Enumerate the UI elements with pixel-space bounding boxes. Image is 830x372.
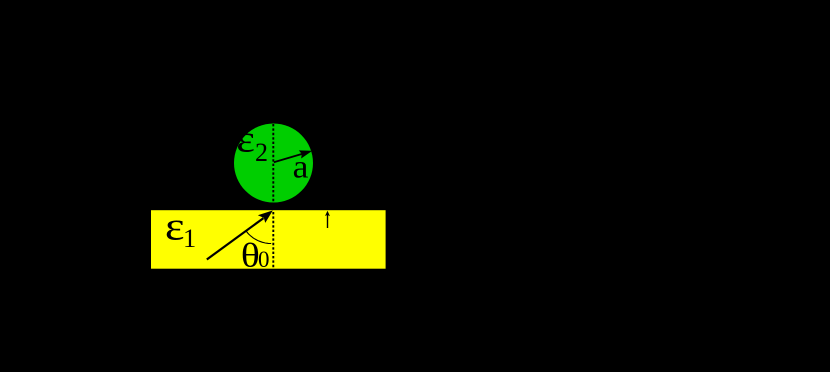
svg-text:1: 1 [183, 223, 196, 253]
svg-text:ε: ε [165, 205, 185, 249]
svg-text:θ: θ [241, 236, 260, 273]
svg-text:0: 0 [258, 247, 270, 272]
svg-text:ε: ε [236, 118, 255, 160]
svg-text:2: 2 [255, 138, 268, 167]
svg-text:a: a [293, 149, 309, 186]
